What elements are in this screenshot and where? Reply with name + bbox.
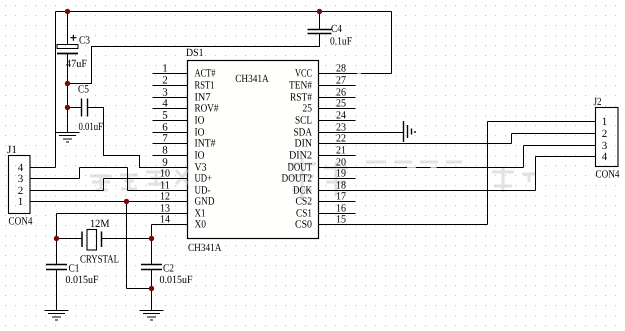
svg-text:12: 12	[160, 191, 170, 203]
svg-text:3: 3	[18, 173, 24, 185]
svg-text:C5: C5	[78, 84, 89, 96]
svg-text:DOUT2: DOUT2	[282, 173, 313, 185]
svg-text:IO: IO	[195, 115, 205, 127]
svg-text:TEN#: TEN#	[289, 80, 312, 92]
svg-text:4: 4	[602, 151, 608, 163]
svg-text:10: 10	[160, 168, 170, 180]
svg-text:2: 2	[162, 75, 168, 87]
svg-text:21: 21	[336, 145, 346, 157]
svg-text:5: 5	[162, 110, 168, 122]
svg-text:CON4: CON4	[9, 216, 33, 228]
svg-text:IO: IO	[195, 150, 205, 162]
svg-text:2: 2	[602, 128, 608, 140]
svg-text:J1: J1	[7, 144, 17, 156]
svg-text:DS1: DS1	[186, 47, 204, 59]
svg-text:25: 25	[303, 103, 313, 115]
svg-text:28: 28	[336, 63, 346, 75]
svg-text:19: 19	[336, 168, 346, 180]
svg-text:CS2: CS2	[296, 196, 313, 208]
svg-text:0.01uF: 0.01uF	[79, 121, 104, 133]
svg-text:1: 1	[602, 116, 608, 128]
svg-text:C4: C4	[331, 23, 342, 35]
svg-text:17: 17	[336, 191, 346, 203]
svg-text:22: 22	[336, 133, 346, 145]
svg-text:CH341A: CH341A	[235, 73, 269, 85]
svg-text:15: 15	[336, 214, 346, 226]
svg-text:7: 7	[162, 133, 168, 145]
svg-text:SCL: SCL	[295, 115, 312, 127]
svg-text:24: 24	[336, 110, 346, 122]
svg-text:CON4: CON4	[596, 169, 620, 181]
svg-text:ACT#: ACT#	[195, 68, 216, 80]
svg-text:47uF: 47uF	[66, 58, 87, 70]
svg-text:1: 1	[18, 196, 24, 208]
svg-text:ROV#: ROV#	[195, 103, 219, 115]
svg-text:12M: 12M	[90, 218, 110, 230]
svg-text:CS0: CS0	[295, 219, 312, 231]
svg-text:27: 27	[336, 75, 346, 87]
svg-text:X0: X0	[195, 219, 207, 231]
svg-text:CH341A: CH341A	[188, 242, 222, 254]
svg-text:UD+: UD+	[195, 173, 213, 185]
svg-text:0.015uF: 0.015uF	[66, 274, 99, 286]
svg-text:0.015uF: 0.015uF	[160, 274, 193, 286]
svg-text:RST1: RST1	[195, 80, 215, 92]
svg-text:INT#: INT#	[195, 138, 216, 150]
svg-text:1: 1	[162, 63, 168, 75]
svg-text:GND: GND	[195, 196, 215, 208]
svg-text:25: 25	[336, 98, 346, 110]
svg-text:0.1uF: 0.1uF	[330, 36, 352, 48]
svg-text:C3: C3	[79, 35, 90, 47]
svg-text:J2: J2	[594, 96, 602, 108]
svg-text:14: 14	[160, 214, 170, 226]
svg-text:DIN2: DIN2	[289, 150, 312, 162]
svg-text:8: 8	[162, 145, 168, 157]
svg-text:VCC: VCC	[295, 68, 312, 80]
svg-text:DIN: DIN	[295, 138, 313, 150]
svg-text:C2: C2	[163, 263, 174, 275]
svg-text:4: 4	[162, 98, 168, 110]
svg-text:C1: C1	[69, 263, 80, 275]
svg-text:CRYSTAL: CRYSTAL	[80, 254, 119, 266]
